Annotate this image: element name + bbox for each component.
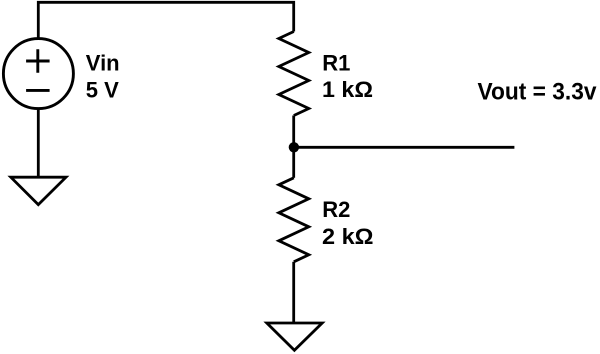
resistor R1 (zigzag) (279, 32, 309, 116)
wire: source bottom to ground (37, 109, 40, 177)
svg-text:R2: R2 (322, 197, 350, 222)
wire: top rail from Vin source to R1 (38, 2, 293, 38)
wire: Vout tap to the right (294, 146, 515, 149)
svg-text:1 kΩ: 1 kΩ (322, 77, 373, 102)
resistor R2 (zigzag) (279, 178, 309, 262)
voltage source Vin (circle) (3, 39, 73, 109)
svg-text:R1: R1 (322, 51, 350, 76)
svg-text:2 kΩ: 2 kΩ (322, 224, 374, 249)
wire: R2 bottom to ground (292, 262, 295, 323)
node: junction dot between R1 and R2 (289, 142, 299, 152)
ground symbol (right, under R2) (267, 323, 322, 350)
wire: node to R2 top (292, 147, 295, 178)
plus sign of source (26, 49, 49, 72)
minus sign of source (26, 89, 49, 92)
ground symbol (left, under source) (11, 177, 66, 204)
svg-text:Vin: Vin (86, 50, 120, 75)
svg-text:5 V: 5 V (86, 78, 119, 103)
svg-text:Vout = 3.3v: Vout = 3.3v (478, 79, 598, 106)
wire: R1 bottom to node (292, 116, 295, 148)
